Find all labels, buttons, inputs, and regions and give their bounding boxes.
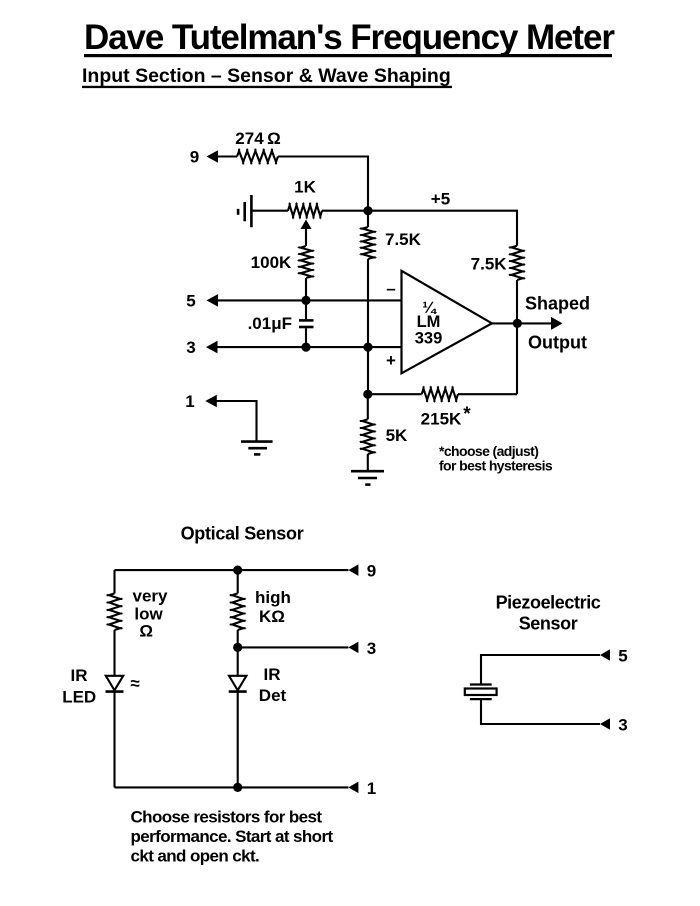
pin 5 arrow [207,294,219,307]
svg-text:215K: 215K [421,409,462,428]
wire: 215K to output column [458,393,517,395]
wire: pin5 to op-amp minus input [217,299,402,301]
resistor R 100K [298,246,314,278]
svg-text:Optical Sensor: Optical Sensor [181,524,304,544]
svg-text:Det: Det [259,686,287,705]
wire: IR Det to bottom rail [237,692,239,788]
wire: wiper to 100K [305,229,307,246]
svg-text:*: * [463,404,471,425]
svg-text:100K: 100K [251,253,292,272]
pin 9 arrow [207,150,219,163]
wire: tap to IR detector [237,647,239,675]
note choose resistors [131,807,334,865]
potentiometer R 1K [288,203,322,219]
wire: optical bottom rail [115,786,349,788]
capacitor C .01uF [299,300,314,347]
svg-text:9: 9 [190,148,199,167]
wire: ground to 1K [251,210,288,212]
svg-text:Output: Output [528,332,587,352]
junction: 1K / +5 node [363,206,372,215]
svg-text:performance. Start at short: performance. Start at short [131,827,334,846]
resistor high K ohm [230,593,246,630]
label very low ohm [133,587,169,641]
svg-text:high: high [255,588,291,607]
wire: top rail to very-low resistor [113,570,115,593]
svg-text:Sensor: Sensor [519,614,578,634]
title Piezoelectric Sensor [496,593,601,634]
ground under pin 1 [241,442,273,455]
wire: high-K resistor to tap [237,630,239,647]
label IR Det [259,665,287,705]
diode IR LED [106,676,124,692]
junction: optical pin3 tap [233,643,242,652]
junction: output node [513,319,522,328]
ground (sideways) at 1K left [238,195,251,227]
svg-text:339: 339 [415,329,443,347]
svg-text:LED: LED [62,688,96,707]
svg-text:1: 1 [185,392,194,411]
junction: bottom rail [233,783,242,792]
wire: output node down to feedback [516,323,518,394]
svg-text:7.5K: 7.5K [385,230,422,249]
svg-text:.01μF: .01μF [248,314,292,333]
pin 1 arrow [205,395,217,408]
diode IR Det [229,676,247,692]
svg-text:very: very [133,587,169,606]
resistor very low ohm [107,593,123,630]
svg-text:3: 3 [618,716,627,735]
wire: op-amp output [492,322,552,324]
svg-text:7.5K: 7.5K [471,254,508,273]
subtitle: Input Section - Sensor &amp; Wave Shaping [82,65,452,88]
potentiometer wiper arrow [301,220,312,230]
wire: pin3 to op-amp plus input [217,346,402,348]
junction: cap top on minus wire [301,296,310,305]
svg-text:–: – [386,279,395,298]
svg-text:1K: 1K [294,178,316,197]
wire: plus node to 5K [367,394,369,419]
svg-text:5: 5 [186,291,195,310]
wire: very-low resistor to LED [113,630,115,676]
resistor R 274ohm [237,149,278,165]
svg-text:ckt and open ckt.: ckt and open ckt. [131,846,260,865]
wire: 100K to minus node [305,278,307,300]
op-amp U1 LM339 triangle [402,271,492,374]
resistor R 7.5K left [360,227,376,259]
piezo element [465,685,497,700]
wire: 5K to ground [367,454,369,471]
svg-text:3: 3 [367,639,376,658]
svg-text:IR: IR [71,666,88,685]
wire: 7.5K right to output node [516,280,518,323]
svg-text:Input Section – Sensor & Wave: Input Section – Sensor & Wave Shaping [82,65,451,87]
wire: piezo top [481,655,600,684]
wire: optical top rail [115,569,349,571]
wire: node to 7.5K left [367,211,369,227]
junction: top rail / right branch [233,566,242,575]
wire: 1K to node [322,210,368,212]
junction: plus node / feedback [363,390,372,399]
svg-text:Choose resistors for best: Choose resistors for best [131,807,323,826]
wire: plus node to 215K [368,393,422,395]
svg-text:1: 1 [367,779,376,798]
wire: LED to bottom rail [113,692,115,788]
svg-text:Ω: Ω [139,622,153,641]
title: Dave Tutelman's Frequency Meter [84,18,615,57]
svg-text:3: 3 [186,338,195,357]
ground under 5K [351,471,384,484]
svg-text:IR: IR [264,665,281,684]
resistor R 215K [422,386,458,402]
piezo pin 3 arrow [600,718,610,730]
output arrow [551,317,563,330]
wire: piezo bottom [481,700,600,724]
resistor R 7.5K right [509,246,525,280]
svg-text:5: 5 [618,647,627,666]
pin 3 arrow [206,341,218,354]
junction: cap bottom on plus wire [301,343,310,352]
svg-text:5K: 5K [386,426,408,445]
wire: 274ohm to node V+ column [278,157,368,211]
wire: tap to pin 3 [238,646,349,648]
label high K ohm [255,588,291,626]
optical pin 3 arrow [348,642,358,654]
resistor R 5K [360,419,376,454]
svg-text:KΩ: KΩ [259,607,285,626]
svg-text:+5: +5 [431,190,450,209]
optical pin 1 arrow [348,782,358,794]
svg-text:LM: LM [417,313,441,331]
wire: pin1 to ground [217,401,257,442]
svg-text:Piezoelectric: Piezoelectric [496,593,601,613]
svg-text:9: 9 [367,562,376,581]
wire: 7.5K left down to plus node [367,259,369,394]
wire: +5 rail to right column [368,211,517,246]
optical pin 9 arrow [348,564,358,576]
wire: pin9 lead [217,155,237,157]
label IR LED [62,666,96,706]
svg-text:for best hysteresis: for best hysteresis [439,458,553,474]
svg-text:274 Ω: 274 Ω [235,129,280,148]
svg-text:Dave Tutelman's Frequency Mete: Dave Tutelman's Frequency Meter [84,18,615,57]
junction: plus wire / left column [363,343,372,352]
svg-text:≈: ≈ [130,674,139,693]
piezo pin 5 arrow [600,649,610,661]
note choose adjust [439,443,553,474]
svg-text:+: + [386,351,396,370]
svg-text:Shaped: Shaped [525,293,590,313]
wire: top rail to high-K resistor [237,570,239,593]
